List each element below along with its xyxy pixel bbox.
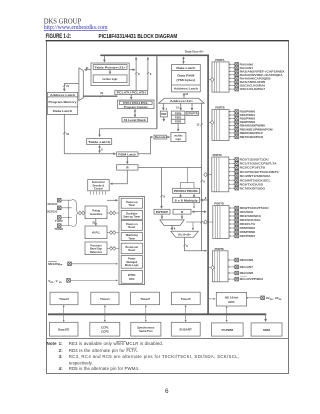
osc pin wires <box>61 200 72 225</box>
OSC2/CLKO pin <box>57 206 61 210</box>
wire 21 table pointer to mux <box>85 69 91 71</box>
12-bit address arrow to latch <box>183 93 185 98</box>
arrow timing gen to PLL, label <box>95 219 97 226</box>
svg-text:(768 bytes): (768 bytes) <box>176 79 195 82</box>
svg-text:RC1/T1OSI/CCP2/FLTA: RC1/T1OSI/CCP2/FLTA <box>240 162 277 166</box>
svg-text:RB7/KBI3/PGD: RB7/KBI3/PGD <box>240 135 264 139</box>
pin RD5 <box>229 227 235 229</box>
svg-text:MFM: MFM <box>263 328 270 332</box>
pin RB6 <box>229 132 235 134</box>
arrow decode to inc/dec logic <box>166 136 169 138</box>
16-bit instruction bus vertical <box>63 114 65 153</box>
slash 16 label <box>63 132 66 134</box>
inc/dec logic (table pointer) <box>93 75 127 83</box>
timing generation <box>85 206 107 219</box>
svg-text:RA0/AN0: RA0/AN0 <box>240 62 254 66</box>
PRODH PRODL register <box>173 188 200 193</box>
svg-text:OSC1/CLKI/RA7: OSC1/CLKI/RA7 <box>240 87 266 91</box>
svg-text:Generation: Generation <box>90 213 103 216</box>
junction dot <box>204 250 206 252</box>
svg-text:8: 8 <box>150 73 152 76</box>
svg-text:RD3/SCK/SCL: RD3/SCK/SCL <box>240 218 262 222</box>
MCLR overline <box>48 261 57 263</box>
svg-text:RA3/AN3/VREF+/CAP2/QEA: RA3/AN3/VREF+/CAP2/QEA <box>240 73 283 77</box>
program memory stack outer <box>47 92 77 114</box>
synchronous serial port <box>131 322 161 336</box>
data latch (program memory) <box>47 106 77 108</box>
power column outer box <box>119 197 145 285</box>
oscillator start-up timer <box>121 210 142 219</box>
svg-text:Start-up Timer: Start-up Timer <box>123 216 140 219</box>
arrow FSR2 to inc/dec logic <box>177 124 179 132</box>
FLTA overline <box>126 347 137 349</box>
svg-text:RA1/AN1: RA1/AN1 <box>240 66 254 70</box>
svg-text:Note: Note <box>47 341 57 346</box>
wire bus to ADC <box>209 298 215 300</box>
svg-text:PIC18F4331/4431 BLOCK DIAGRAM: PIC18F4331/4431 BLOCK DIAGRAM <box>99 34 178 40</box>
svg-text:RD5 is the alternate pin for P: RD5 is the alternate pin for PWM4. <box>69 366 140 371</box>
PC bus 20 mux to program counter <box>83 95 117 97</box>
central data bus vertical <box>207 55 209 315</box>
svg-text:Table Pointer<21>: Table Pointer<21> <box>95 66 127 69</box>
svg-text:RD5/PWM4: RD5/PWM4 <box>240 226 256 230</box>
svg-text:8: 8 <box>186 245 188 248</box>
PORTC block <box>212 157 229 192</box>
arrow W to mux <box>181 214 183 219</box>
svg-text:4: 4 <box>166 108 168 111</box>
pin RB7 <box>229 136 235 138</box>
Timer0 bus link <box>63 305 65 321</box>
table pointer register <box>93 65 127 70</box>
wire data bus to table pointer <box>103 56 105 62</box>
PCLATU PCLATH register <box>115 91 148 95</box>
PORTE block <box>212 251 228 282</box>
PLL to column connector <box>107 232 119 234</box>
FSR2 register <box>171 119 185 123</box>
svg-text:BSR: BSR <box>161 113 166 116</box>
svg-text:RE3 is available only when MCL: RE3 is available only when MCLR is disab… <box>69 341 164 346</box>
svg-text:IR: IR <box>126 167 129 170</box>
pin RE2 <box>228 272 235 274</box>
figure frame <box>47 41 289 374</box>
pin RC2 <box>229 167 235 169</box>
riser from data bus to table latch <box>156 56 158 129</box>
svg-text:RD0/T0CKI/T5CKI: RD0/T0CKI/T5CKI <box>240 206 269 210</box>
band gap to column connector <box>107 247 119 249</box>
junction dots <box>68 207 70 209</box>
31 level stack <box>122 118 148 122</box>
svg-text:3:: 3: <box>59 354 64 359</box>
svg-text:Address Latch: Address Latch <box>50 94 76 97</box>
svg-text:6: 6 <box>165 388 169 395</box>
svg-text:RD4/FLTA: RD4/FLTA <box>240 222 256 226</box>
svg-text:RB2/PWM2: RB2/PWM2 <box>240 117 256 121</box>
svg-text:PORTA: PORTA <box>215 58 224 62</box>
wire ROM latch side to decode <box>138 137 153 154</box>
svg-text:T1OSO: T1OSO <box>54 227 63 231</box>
wire timing gen top to power column <box>107 199 118 201</box>
pin RE3 MCLR <box>228 278 235 280</box>
pin RD2 <box>229 215 235 217</box>
4X PLL <box>85 226 107 239</box>
FSR1 register <box>171 115 185 119</box>
instruction decode and control <box>88 180 110 191</box>
16-bit instruction bus horizontal <box>64 153 115 155</box>
svg-text:RD2/SDI/SDA: RD2/SDI/SDA <box>240 214 262 218</box>
Timer0 <box>50 292 78 305</box>
wire table pointer box to PCLATH riser <box>129 69 135 71</box>
PORTD bus connector diamond <box>209 221 213 223</box>
pin RA6 <box>229 84 235 86</box>
PORTB block <box>212 110 229 141</box>
FSR input arrow, label 12 <box>180 103 182 110</box>
svg-text:RA2/AN2/VREF-/CAP1/INDX: RA2/AN2/VREF-/CAP1/INDX <box>240 69 285 73</box>
address/literal vertical rail <box>201 103 203 251</box>
svg-text:ALU<8>: ALU<8> <box>178 234 192 237</box>
svg-text:RC3, RC4 and RC5 are alternate: RC3, RC4 and RC5 are alternate pins for … <box>69 354 239 359</box>
power-on reset <box>121 220 142 230</box>
slash 8 label riser 2 <box>147 72 150 74</box>
FSR0 register <box>171 111 185 115</box>
svg-text:RB5/KBI1/PWM4/PGM: RB5/KBI1/PWM4/PGM <box>240 127 274 131</box>
pin RA3 <box>229 74 235 76</box>
svg-text:Mode Logic: Mode Logic <box>125 264 139 267</box>
arrow table pointer to inc/dec <box>109 69 111 73</box>
svg-text:Table Latch: Table Latch <box>88 141 111 144</box>
Timer1 bus link <box>104 305 106 321</box>
link PC to stack <box>134 110 136 117</box>
svg-text:PORTD: PORTD <box>214 202 223 206</box>
precision band gap reference <box>85 242 107 255</box>
PCLATH riser 2 to data bus <box>147 57 149 90</box>
svg-text:ADC: ADC <box>228 300 235 304</box>
table latch <box>87 139 112 145</box>
svg-text:12: 12 <box>185 93 188 96</box>
svg-text:Address<12>: Address<12> <box>170 100 194 103</box>
svg-text:RA5/AN5/LVDIN: RA5/AN5/LVDIN <box>240 80 266 84</box>
svg-text:RC7/RX/DT/SDO: RC7/RX/DT/SDO <box>240 186 266 190</box>
pin RD4 <box>229 223 235 225</box>
svg-text:8: 8 <box>163 196 165 199</box>
svg-text:T1OSI: T1OSI <box>55 219 63 223</box>
slash 8 on literal bus <box>160 195 163 197</box>
svg-text:Timing: Timing <box>92 210 100 213</box>
pin RA2 <box>229 70 235 72</box>
svg-text:BITOP: BITOP <box>156 211 169 214</box>
svg-text:Data Bus<8>: Data Bus<8> <box>185 49 204 53</box>
pin RC3 <box>229 171 235 173</box>
double diamond timing input <box>78 211 84 215</box>
ROM latch <box>117 152 138 157</box>
svg-text:SS: SS <box>279 299 282 301</box>
pin RC6 <box>229 183 235 185</box>
pin RC0 <box>229 159 235 161</box>
svg-text:RC4/INT1/SDI/SDA: RC4/INT1/SDI/SDA <box>240 174 271 178</box>
pin RC4 <box>229 175 235 177</box>
pin RB0 <box>229 111 235 113</box>
arrow BITOP to mux <box>161 214 163 219</box>
svg-text:inc/dec logic: inc/dec logic <box>102 78 118 81</box>
PCLATH riser 1 to data bus <box>135 57 137 90</box>
Timer2 bus link <box>145 305 147 321</box>
INTRC osc <box>121 271 142 284</box>
IR wire to instruction decode <box>111 170 128 184</box>
svg-text:Program Memory: Program Memory <box>49 101 78 104</box>
slash 21 label <box>63 85 66 87</box>
pin RA4 <box>229 77 235 79</box>
data latch (RAM) <box>172 69 201 71</box>
combining brace <box>72 199 80 226</box>
svg-text:RB3/PWM3: RB3/PWM3 <box>240 120 256 124</box>
svg-text:Data Latch: Data Latch <box>176 67 196 70</box>
svg-text:RE2/AN8: RE2/AN8 <box>240 271 254 275</box>
Timer2 <box>131 292 160 305</box>
svg-text:Data RAM: Data RAM <box>177 74 194 77</box>
svg-text:MCLR/V: MCLR/V <box>48 262 60 266</box>
data bus branch into ALU <box>186 221 202 223</box>
pin RD0 <box>229 207 235 209</box>
svg-text:RD7/PWM7: RD7/PWM7 <box>240 234 256 238</box>
BSR register <box>160 111 167 117</box>
slash 12 on rail <box>200 124 203 126</box>
table latch 8-bit link <box>99 146 101 153</box>
Timer5 <box>171 292 200 305</box>
svg-text:Serial Port: Serial Port <box>139 329 153 333</box>
inc/dec logic (FSR) <box>171 132 186 141</box>
pin RD3 <box>229 219 235 221</box>
svg-text:logic: logic <box>176 138 182 141</box>
MFM <box>251 323 282 336</box>
svg-text:CCP2: CCP2 <box>101 330 109 334</box>
wire data bus to data RAM latch <box>183 57 185 64</box>
CCP1 CCP2 <box>90 322 120 336</box>
arrows multiply to PRODH <box>180 195 182 198</box>
power-up timer <box>121 198 142 208</box>
svg-text:2:: 2: <box>59 348 64 353</box>
8x8 multiply <box>173 197 200 202</box>
svg-text:12: 12 <box>197 124 200 127</box>
svg-text:8: 8 <box>174 227 176 230</box>
svg-text:FIGURE 1-2:: FIGURE 1-2: <box>46 34 72 40</box>
VDD wire to power column <box>70 279 117 281</box>
pin RD1 <box>229 211 235 213</box>
svg-text:MCLR/VPP/RE3: MCLR/VPP/RE3 <box>240 277 264 281</box>
pin RB3 <box>229 121 235 123</box>
slash 8 label riser 1 <box>135 72 138 74</box>
PORTB bus connector diamond <box>209 122 212 124</box>
svg-text:RB0/PWM0: RB0/PWM0 <box>240 110 256 114</box>
svg-text:Timer0: Timer0 <box>59 297 69 301</box>
slash 20 label <box>100 95 103 97</box>
pin RA0 <box>229 63 235 65</box>
pin RC5 <box>229 179 235 181</box>
svg-text:8: 8 <box>205 197 207 200</box>
EUSART <box>171 322 200 336</box>
svg-text:respectively.: respectively. <box>69 360 93 365</box>
MCLR wire to power column <box>71 263 117 265</box>
BITOP box <box>154 209 170 214</box>
PORTA bus connector diamond <box>209 79 212 81</box>
wire multiply to rail, slash 8 <box>201 199 208 201</box>
arrow ROM latch to IR <box>126 156 128 163</box>
pin RA5 <box>229 81 235 83</box>
pin RC7 <box>229 187 235 189</box>
pin RD7 <box>229 235 235 237</box>
Timer5 bus link <box>185 305 187 321</box>
svg-text:1:: 1: <box>59 341 64 346</box>
svg-text:8: 8 <box>203 180 205 183</box>
svg-text:PORTE: PORTE <box>215 247 224 251</box>
svg-text:OSC1/CLKI: OSC1/CLKI <box>48 202 58 206</box>
svg-text:12: 12 <box>176 106 179 109</box>
figure top rule <box>46 40 289 42</box>
svg-text:RC0/T1OSO/T1CKI: RC0/T1OSO/T1CKI <box>240 158 269 162</box>
pin RC1 <box>229 163 235 165</box>
svg-text:Data Latch: Data Latch <box>53 110 73 113</box>
svg-text:25: 25 <box>92 221 95 224</box>
Data EE <box>49 322 78 336</box>
literal bus IR to BITOP <box>161 167 163 208</box>
svg-text:FSR2: FSR2 <box>175 121 182 124</box>
svg-text:21: 21 <box>66 85 69 88</box>
svg-text:RC2/CCP1/FLTB: RC2/CCP1/FLTB <box>240 166 266 170</box>
Timer1 <box>91 292 119 305</box>
svg-text:INTRC: INTRC <box>128 274 136 277</box>
PORTA block <box>212 62 229 92</box>
BSR input arrow, label 4 <box>162 103 164 110</box>
wire ADC to AVDD pin <box>247 297 261 299</box>
svg-text:RA4/AN4/CAP3/QEB: RA4/AN4/CAP3/QEB <box>240 77 271 81</box>
HS 10-bit ADC <box>216 292 246 306</box>
svg-text:Synchronous: Synchronous <box>137 326 155 330</box>
MCLR pin <box>68 262 72 266</box>
table pointer outer box <box>91 63 129 86</box>
notes divider line <box>47 338 289 340</box>
PORTC bus connector diamond <box>209 174 212 176</box>
timing gen to column connector <box>107 212 119 214</box>
svg-text:Reset: Reset <box>128 226 135 229</box>
svg-text:RC6/TX/CK/SS: RC6/TX/CK/SS <box>240 182 264 186</box>
STKPTR register <box>186 111 198 115</box>
svg-text:, V: , V <box>54 279 58 283</box>
svg-text:4:: 4: <box>59 366 64 371</box>
svg-text:STKPTR: STKPTR <box>187 113 198 116</box>
svg-text:PCLATU PCLATH: PCLATU PCLATH <box>117 92 146 95</box>
svg-text:Decode: Decode <box>155 136 166 139</box>
svg-text:SS: SS <box>59 282 62 284</box>
svg-text:RD4 is the alternate pin for F: RD4 is the alternate pin for FLTA. <box>69 348 139 353</box>
svg-text:Timer2: Timer2 <box>140 297 150 301</box>
ALU output wire to bus <box>185 237 207 251</box>
svg-text:OSC: OSC <box>129 278 135 281</box>
VDD pin <box>67 279 71 283</box>
pin RD6 <box>229 231 235 233</box>
svg-text:PRODH PRODL: PRODH PRODL <box>174 190 199 193</box>
svg-text:31 Level Stack: 31 Level Stack <box>124 119 147 122</box>
slash 8 on rail upper <box>200 180 203 182</box>
svg-text:Reference: Reference <box>90 251 103 254</box>
svg-text:Data EE: Data EE <box>58 328 69 332</box>
OSC1/CLKI pin <box>57 198 61 202</box>
IR bus to right <box>138 166 202 168</box>
AVDD AVSS pin <box>261 296 265 300</box>
wire multiply to W <box>193 203 195 209</box>
pin RE1 <box>228 266 235 268</box>
ADC / PCPWM bus link <box>226 307 228 322</box>
svg-text:Program Counter: Program Counter <box>124 106 148 109</box>
bus turn into MFM <box>265 314 267 322</box>
pin RB1 <box>229 114 235 116</box>
svg-text:RB4/KBI0/PWM5: RB4/KBI0/PWM5 <box>240 124 266 128</box>
svg-text:OSC2/CLKO: OSC2/CLKO <box>47 210 57 214</box>
svg-text:4X PLL: 4X PLL <box>92 231 101 234</box>
control signal arrows <box>90 191 105 195</box>
PCPWM <box>212 323 244 336</box>
svg-text:PCPWM: PCPWM <box>222 328 234 332</box>
slash 8 on ALU output <box>183 244 186 246</box>
svg-text:RE0/AN6: RE0/AN6 <box>240 258 254 262</box>
power managed mode logic <box>121 255 142 268</box>
svg-text:OSC2/CLKO/RA6: OSC2/CLKO/RA6 <box>240 84 266 88</box>
PORTE bus connector diamond <box>209 267 212 269</box>
svg-text:Timer5: Timer5 <box>181 297 191 301</box>
wire W to data bus <box>192 211 206 213</box>
svg-text:PCU PCH PCL: PCU PCH PCL <box>123 102 149 105</box>
svg-text:RD1/SDO: RD1/SDO <box>240 210 254 214</box>
mux output, slash 8 <box>171 225 173 230</box>
svg-text:20: 20 <box>100 92 103 95</box>
bottom peripheral bus <box>48 313 266 315</box>
mux output wire 21 to address latch <box>64 84 79 91</box>
MCLR overline <box>117 340 127 342</box>
svg-text:PORTC: PORTC <box>213 153 222 157</box>
decode box <box>154 135 166 139</box>
svg-text:8 x 8 Multiply: 8 x 8 Multiply <box>175 199 199 202</box>
svg-text:RC3/T0CKI/T5CKI/INT0: RC3/T0CKI/T5CKI/INT0 <box>240 170 280 174</box>
PORTD block <box>213 206 229 239</box>
svg-text:EUSART: EUSART <box>180 328 193 332</box>
arrow PCLAT to PC <box>130 94 132 99</box>
wire IR bus down to PRODH <box>181 167 195 188</box>
pin RB5 <box>229 128 235 130</box>
BSR lower stub <box>163 117 165 121</box>
svg-text:Timer: Timer <box>128 237 135 240</box>
svg-text:http://www.embestdks.com: http://www.embestdks.com <box>44 24 108 31</box>
svg-text:ROM Latch: ROM Latch <box>118 153 137 156</box>
svg-text:RD6/PWM6: RD6/PWM6 <box>240 230 256 234</box>
pin RA7 <box>229 88 235 90</box>
STKPTR input arrow <box>191 103 193 110</box>
svg-text:Timer: Timer <box>128 204 135 207</box>
watchdog timer <box>121 233 142 241</box>
svg-text:Timer1: Timer1 <box>100 297 110 301</box>
wire to table latch <box>100 129 157 137</box>
svg-text:PP: PP <box>59 265 62 267</box>
pin RE0 <box>228 259 235 261</box>
data bus top horizontal <box>100 54 209 56</box>
brown-out reset <box>121 243 142 254</box>
address latch (RAM) <box>172 84 201 86</box>
svg-text:Control: Control <box>94 187 103 190</box>
address latch (program memory) <box>47 96 77 98</box>
svg-text:8: 8 <box>101 148 103 151</box>
svg-text:Reset: Reset <box>128 249 135 252</box>
svg-text:RE1/AN7: RE1/AN7 <box>240 265 254 269</box>
svg-text:RB1/PWM1: RB1/PWM1 <box>240 113 256 117</box>
svg-text:RC5/INT2/SCK/SCL: RC5/INT2/SCK/SCL <box>240 178 271 182</box>
instruction register IR <box>117 165 138 170</box>
program counter mux <box>79 68 83 101</box>
